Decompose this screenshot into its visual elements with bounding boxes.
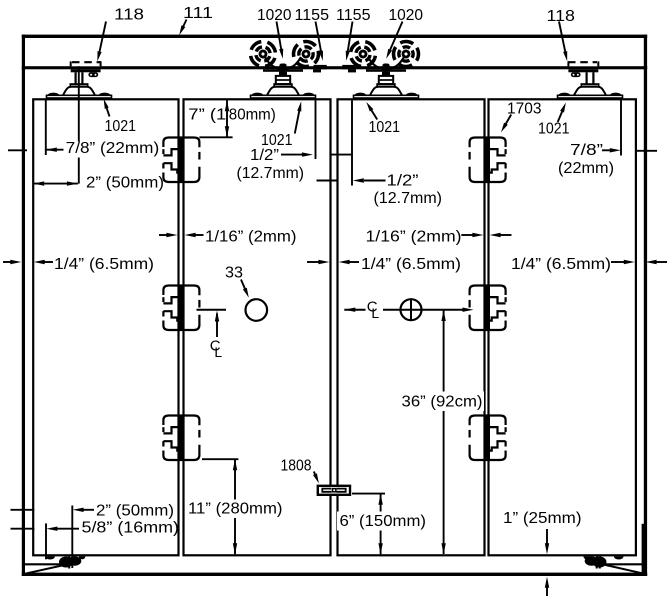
svg-text:(22mm): (22mm) (558, 160, 614, 177)
leader 111 (182, 20, 187, 31)
svg-text:1/4” (6.5mm): 1/4” (6.5mm) (54, 256, 154, 273)
leader 118 right (559, 22, 566, 56)
dimension 1/2 right: tick across gap (317, 180, 337, 182)
bottom pivot left: pivot body (59, 557, 73, 568)
top pivot right: base plate (558, 95, 623, 98)
dimension 5/8 bottom: witness (45, 523, 47, 559)
top hanger door2: plate feet (252, 93, 264, 96)
hinge 1703 top at junction 3 (470, 138, 506, 183)
top hanger door3: plate feet (355, 93, 367, 96)
top pivot bracket 118 right: ear with screws (571, 72, 581, 77)
bottom pivot right: plate feet (614, 556, 624, 559)
leader 1155 right (347, 22, 352, 56)
frame left jamb (22, 35, 25, 576)
knob centerline right (36in reference) (344, 309, 462, 311)
roller wheel 1020 far-left (247, 38, 279, 70)
svg-text:1021: 1021 (105, 118, 137, 135)
hanger strap left pair (265, 57, 301, 69)
top pivot bracket 118 right: lower band (568, 69, 598, 72)
dimension 1/2 right: witness (351, 100, 353, 185)
svg-text:7/8” (22mm): 7/8” (22mm) (66, 140, 160, 157)
top hanger door2: stem (279, 72, 287, 76)
leader 118 left (99, 22, 106, 56)
roller wheel 1020 far-right (389, 37, 423, 71)
roller wheel 1020 mid-left (291, 39, 322, 70)
top hanger door3: nuts (379, 76, 393, 84)
text mask rects (64, 142, 161, 158)
top pivot bracket 118 left: lower band (71, 69, 101, 72)
dimension 7/8 right: outside tick (637, 150, 657, 152)
dimension 11in: vertical line (234, 459, 236, 554)
dimension 1/2 left: line and arrow (281, 154, 302, 156)
top pivot left: plate feet (48, 93, 60, 96)
dimension 1/4 left: arrows (3, 261, 11, 263)
svg-text:1155: 1155 (336, 7, 371, 24)
svg-text:2” (50mm): 2” (50mm) (96, 503, 174, 520)
top hanger door2: collar (274, 84, 292, 86)
leader 1808 (314, 472, 317, 479)
dimension 2in bottom: arrow (73, 508, 84, 512)
aligner 1808 at center gap (318, 486, 350, 495)
dimension 1in: below-sill up arrow (546, 581, 548, 596)
svg-text:36” (92cm): 36” (92cm) (402, 394, 483, 411)
leader 1155 left (316, 22, 322, 56)
svg-text:118: 118 (114, 7, 144, 24)
roller wheel 1020 mid-right (349, 40, 377, 68)
top pivot right: plate feet (559, 93, 571, 96)
frame right jamb (644, 35, 647, 576)
dimension 6in: vertical line (380, 494, 382, 555)
leader 1021 right pivot (558, 108, 564, 122)
top hanger door3: dome 1021 (369, 87, 403, 97)
frame right jamb lower thick part (642, 524, 644, 573)
dimension 7/8 right: witness (620, 99, 622, 155)
svg-text:1155: 1155 (295, 7, 330, 24)
svg-text:1/16” (2mm): 1/16” (2mm) (366, 229, 462, 246)
svg-text:7” (1: 7” (1 (188, 107, 226, 124)
svg-text:(12.7mm): (12.7mm) (374, 190, 443, 207)
hinge top extension line (199, 136, 232, 138)
leader 1703 (504, 115, 512, 128)
door panel 1 (33, 99, 178, 555)
bottom pivot right: pin (597, 556, 600, 569)
dimension 2in bottom: outside tick (11, 509, 35, 511)
bottom pivot left: pin (68, 556, 70, 569)
opening frame top header (22, 35, 647, 38)
top pivot bracket 118 left: plate (71, 62, 101, 67)
top pivot right: stem (587, 72, 594, 84)
track 111 lower line (22, 66, 647, 69)
door panel 3 (338, 99, 485, 555)
bottom pivot right: pivot body (593, 557, 607, 568)
dimension 11in: extension line (202, 458, 238, 460)
dimension 2in bottom: witness (71, 506, 73, 569)
dimension 36in: vertical line (443, 311, 445, 555)
svg-text:L: L (214, 344, 222, 360)
svg-text:1021: 1021 (538, 121, 570, 138)
svg-text:6” (150mm): 6” (150mm) (340, 513, 427, 530)
dimension 5/8 bottom: arrow (46, 527, 57, 531)
svg-text:7/8”: 7/8” (570, 142, 603, 159)
hinge bottom at junction 3 (470, 416, 506, 461)
top hanger door3: stem (382, 72, 390, 76)
dimension 7/8 left: witness (45, 99, 47, 155)
dimension 1/2 right: arrow and line (353, 178, 364, 182)
hinge bottom at junction 1 (163, 416, 199, 461)
top pivot left: collar (70, 84, 87, 86)
top pivot left: base plate (47, 95, 112, 98)
bottom pivot left: plate feet (45, 556, 55, 559)
hinge 1703 top at junction 1 (163, 138, 199, 183)
dimension 1/4 center: arrows (307, 261, 319, 263)
top pivot bracket 118 left: ear with screws (88, 72, 98, 77)
top hanger door3: plate bar (366, 69, 406, 72)
svg-text:1” (25mm): 1” (25mm) (503, 510, 582, 527)
svg-text:118: 118 (547, 8, 576, 25)
dimension 7in: vertical with arrows (226, 100, 228, 137)
svg-text:5/8” (16mm): 5/8” (16mm) (82, 520, 180, 537)
leader 1021 left pivot (105, 104, 109, 117)
svg-text:L: L (371, 305, 379, 321)
frame bottom sill (22, 573, 647, 576)
leader 1020 left (277, 22, 282, 54)
svg-text:33: 33 (225, 265, 243, 282)
centre line symbol right (366, 298, 383, 320)
svg-text:1020: 1020 (389, 7, 424, 24)
svg-text:1808: 1808 (281, 458, 312, 475)
svg-text:80mm): 80mm) (229, 107, 276, 124)
hanger bolt left (door2) (279, 64, 286, 73)
dimension 1/2 left: tick across gap (332, 154, 352, 156)
leader 1021 door3 (369, 107, 377, 120)
dimension 7/8 left: outside tick (8, 149, 27, 151)
door knob 33 (245, 299, 267, 321)
svg-text:(12.7mm): (12.7mm) (237, 165, 305, 182)
dimension 7/8 left: arrow and line (46, 148, 57, 152)
svg-text:1/4” (6.5mm): 1/4” (6.5mm) (511, 256, 611, 273)
dimension 1/4 right: arrows (611, 261, 624, 263)
top hanger door2: base plate (251, 95, 316, 98)
dimension 7/8 right: line and arrow (602, 149, 610, 151)
svg-text:1020: 1020 (257, 7, 292, 24)
dimension 6in: extension line (352, 493, 385, 495)
svg-text:2” (50mm): 2” (50mm) (86, 175, 164, 192)
dimension 2in left: line with arrows (33, 183, 78, 185)
track stop 1155 right (342, 65, 355, 69)
top hanger door2: plate bar (263, 69, 303, 72)
bottom pivot left: jamb bracket (25, 563, 66, 565)
hanger bolt right (door3) (382, 64, 389, 73)
svg-text:11” (280mm): 11” (280mm) (188, 501, 283, 518)
dimension 5/8 bottom: outside tick (11, 528, 35, 530)
door panel 4 (489, 99, 636, 555)
svg-text:1/2”: 1/2” (250, 147, 279, 164)
svg-text:1/4” (6.5mm): 1/4” (6.5mm) (361, 256, 461, 273)
dimension 1/16 junction1: arrows (159, 234, 169, 236)
dimension 1/2 left: witness (315, 100, 317, 159)
top pivot right: collar (581, 84, 598, 86)
top hanger door2: dome 1021 (266, 87, 300, 97)
top pivot left: stem (76, 72, 83, 84)
svg-text:1/2”: 1/2” (387, 173, 419, 190)
svg-text:1/16” (2mm): 1/16” (2mm) (205, 229, 297, 246)
svg-text:1703: 1703 (507, 101, 542, 118)
top pivot right: dome 1021 (573, 87, 607, 97)
bottom pivot right: jamb bracket (606, 563, 645, 565)
knob centerline left stub (197, 309, 227, 311)
top hanger door2: nuts (276, 76, 290, 84)
top hanger door3: base plate (354, 95, 419, 98)
top hanger door3: collar (377, 84, 395, 86)
hanger strap right pair (368, 57, 404, 69)
pull symbol circle-plus door3 (401, 299, 422, 320)
leader 33 (241, 280, 247, 293)
hinge middle at junction 3 (470, 286, 506, 331)
centerline arrow left (216, 314, 218, 338)
svg-text:111: 111 (183, 5, 213, 22)
dimension 1in: down arrow (546, 529, 548, 545)
track stop 1155 left (314, 65, 327, 69)
top pivot bracket 118 right: plate (568, 62, 598, 67)
door panel 2 (184, 99, 331, 555)
svg-text:1021: 1021 (369, 119, 401, 136)
dimension 1/16 junction3: arrows (461, 234, 473, 236)
leader 1020 right (388, 22, 402, 54)
leader 1021 door2 (295, 107, 300, 134)
hinge middle at junction 1 (163, 286, 199, 331)
top pivot left: centerline through door (78, 66, 80, 183)
top pivot left: dome 1021 (62, 87, 96, 97)
